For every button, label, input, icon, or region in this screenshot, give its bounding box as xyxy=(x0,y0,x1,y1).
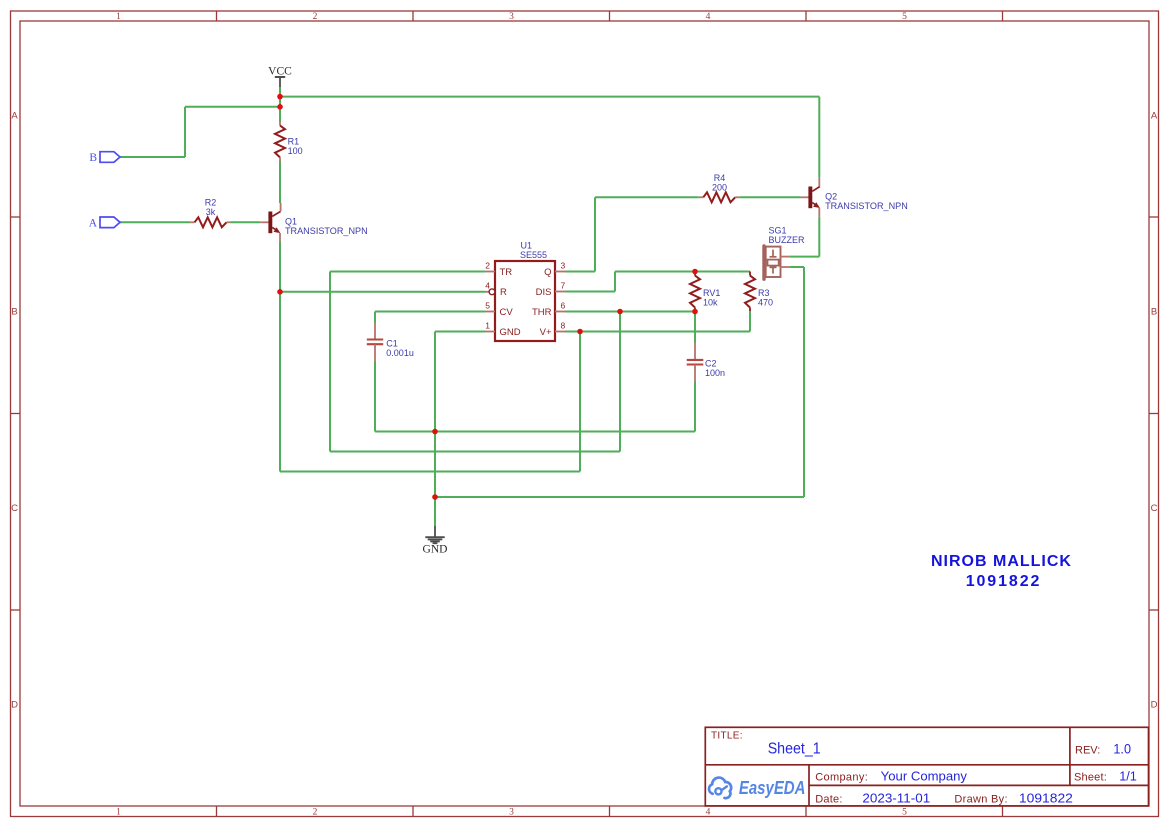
svg-text:5: 5 xyxy=(485,301,490,311)
svg-text:2023-11-01: 2023-11-01 xyxy=(862,790,930,805)
node junction 3 xyxy=(277,289,283,295)
svg-text:V+: V+ xyxy=(540,327,552,338)
svg-text:EasyEDA: EasyEDA xyxy=(739,778,806,798)
svg-text:200: 200 xyxy=(712,183,727,193)
svg-text:100n: 100n xyxy=(705,368,725,378)
svg-text:Sheet:: Sheet: xyxy=(1074,772,1107,784)
wire DIS pin horizontal xyxy=(565,291,615,293)
svg-text:1091822: 1091822 xyxy=(1019,790,1073,805)
wire CV pin horizontal xyxy=(375,311,485,313)
svg-text:5: 5 xyxy=(902,12,907,22)
resistor RV1 xyxy=(690,272,720,312)
svg-text:C: C xyxy=(1151,503,1158,514)
wire R1 bottom to Q1 collector xyxy=(279,161,281,203)
svg-text:10k: 10k xyxy=(703,298,718,308)
svg-text:TR: TR xyxy=(500,267,513,278)
svg-text:A: A xyxy=(1151,111,1158,122)
ruler row letters left xyxy=(11,111,18,711)
svg-text:C1: C1 xyxy=(386,338,398,348)
svg-text:TRANSISTOR_NPN: TRANSISTOR_NPN xyxy=(285,226,368,236)
svg-text:B: B xyxy=(11,307,17,318)
wire Q1 emitter vertical xyxy=(279,241,281,471)
wire port B vertical xyxy=(184,107,186,157)
svg-text:4: 4 xyxy=(485,281,490,291)
wire R3 bottom vertical xyxy=(749,311,751,332)
ruler row letters right xyxy=(1151,111,1158,711)
op-amp U1 SE555 body xyxy=(495,240,555,341)
wire buzzer top pin xyxy=(789,256,819,258)
wire Q2 collector vertical xyxy=(818,97,820,178)
svg-text:Drawn By:: Drawn By: xyxy=(954,793,1007,805)
svg-text:BUZZER: BUZZER xyxy=(769,235,806,245)
svg-text:GND: GND xyxy=(500,327,521,338)
wire TR pin horizontal xyxy=(330,271,485,273)
wire C2 top vertical xyxy=(694,312,696,343)
svg-text:3: 3 xyxy=(509,808,514,818)
ruler column ticks bottom xyxy=(217,806,1003,817)
svg-text:2: 2 xyxy=(485,261,490,271)
pin 1 GND xyxy=(485,321,521,338)
svg-text:A: A xyxy=(11,111,18,122)
node junction 8 xyxy=(692,269,698,275)
svg-text:470: 470 xyxy=(758,298,773,308)
pin 7 DIS xyxy=(536,281,566,299)
svg-text:Your Company: Your Company xyxy=(881,769,968,784)
svg-text:R: R xyxy=(500,287,507,298)
capacitor C2 xyxy=(687,343,725,382)
wire Q1 emitter to V+ horizontal xyxy=(280,471,580,473)
svg-text:2: 2 xyxy=(313,12,318,22)
node junction 7 xyxy=(617,309,623,315)
svg-text:B: B xyxy=(1151,307,1157,318)
port A xyxy=(89,217,120,229)
svg-text:VCC: VCC xyxy=(268,66,292,78)
wire buzzer bottom pin xyxy=(789,266,804,268)
svg-text:REV:: REV: xyxy=(1075,745,1100,757)
wire TR to THR horizontal xyxy=(330,451,620,453)
svg-text:R2: R2 xyxy=(205,198,217,208)
resistor R2 xyxy=(190,198,230,228)
svg-text:RV1: RV1 xyxy=(703,288,720,298)
svg-text:D: D xyxy=(11,700,18,711)
wire Q to R4 horizontal xyxy=(595,196,699,198)
buzzer SG1 xyxy=(762,225,805,281)
svg-text:Q1: Q1 xyxy=(285,216,297,226)
svg-text:Q: Q xyxy=(544,267,551,278)
svg-text:U1: U1 xyxy=(521,240,533,250)
ruler row ticks left xyxy=(11,217,21,610)
VCC power symbol xyxy=(268,66,292,88)
svg-text:TRANSISTOR_NPN: TRANSISTOR_NPN xyxy=(825,201,908,211)
GND ground symbol xyxy=(423,526,448,556)
svg-text:CV: CV xyxy=(500,307,514,318)
svg-text:100: 100 xyxy=(288,146,303,156)
transistor Q2 xyxy=(800,177,907,217)
wire THR pin horizontal xyxy=(565,311,695,313)
port B xyxy=(89,152,120,164)
wire C1 bottom vertical xyxy=(374,362,376,432)
svg-text:SE555: SE555 xyxy=(520,250,547,260)
pin 5 CV xyxy=(485,301,513,318)
wire R4 to Q2 base xyxy=(740,196,801,198)
svg-text:1091822: 1091822 xyxy=(966,573,1042,590)
wire DIS branch vertical xyxy=(614,272,616,292)
svg-text:TITLE:: TITLE: xyxy=(711,730,743,741)
svg-text:C2: C2 xyxy=(705,358,717,368)
svg-text:THR: THR xyxy=(532,307,552,318)
svg-text:2: 2 xyxy=(313,808,318,818)
pin 3 Q xyxy=(544,261,565,278)
svg-text:Q2: Q2 xyxy=(825,191,837,201)
svg-text:1/1: 1/1 xyxy=(1119,769,1137,784)
wire VCC vertical xyxy=(279,87,281,122)
pin 8 V+ xyxy=(540,321,566,338)
pin 4 R (inverting bubble) xyxy=(485,281,507,299)
wire ground rail horizontal xyxy=(375,431,695,433)
node junction 1 xyxy=(277,94,283,100)
wire V+ pin horizontal xyxy=(565,331,750,333)
wire C2 bottom vertical xyxy=(694,382,696,432)
svg-text:1: 1 xyxy=(116,808,121,818)
svg-text:1: 1 xyxy=(485,321,490,331)
svg-text:3k: 3k xyxy=(206,207,216,217)
svg-text:4: 4 xyxy=(706,808,711,818)
svg-text:D: D xyxy=(1151,700,1158,711)
svg-text:3: 3 xyxy=(561,261,566,271)
svg-text:7: 7 xyxy=(561,281,566,291)
svg-text:Company:: Company: xyxy=(815,772,868,784)
ruler column numbers bottom xyxy=(116,808,907,818)
svg-text:DIS: DIS xyxy=(536,287,552,298)
node junction 2 xyxy=(277,104,283,110)
wire V+ branch vertical xyxy=(579,332,581,472)
wire Q pin horizontal xyxy=(565,271,595,273)
capacitor C1 xyxy=(367,323,414,362)
ruler column ticks top xyxy=(217,11,1003,21)
svg-text:A: A xyxy=(89,217,98,229)
svg-text:1.0: 1.0 xyxy=(1113,741,1131,757)
resistor R4 xyxy=(699,173,740,202)
svg-text:Sheet_1: Sheet_1 xyxy=(768,740,821,757)
svg-text:R3: R3 xyxy=(758,288,770,298)
svg-text:C: C xyxy=(11,503,18,514)
EasyEDA logo cloud xyxy=(709,778,731,799)
wire THR branch vertical xyxy=(619,312,621,452)
node junction 6 xyxy=(577,329,583,335)
pin 6 THR xyxy=(532,301,566,318)
pin 2 TR xyxy=(485,261,512,278)
wire R2 to Q1 base xyxy=(230,221,260,223)
wire DIS to RV1 R3 horizontal xyxy=(615,271,750,273)
wire GND to buzzer horizontal xyxy=(435,496,804,498)
wire GND vertical xyxy=(434,332,436,527)
resistor R3 xyxy=(745,272,773,312)
svg-text:8: 8 xyxy=(561,321,566,331)
resistor R1 xyxy=(275,122,303,161)
node junction 5 xyxy=(432,494,438,500)
transistor Q1 xyxy=(260,203,367,242)
svg-text:4: 4 xyxy=(706,12,711,22)
node junction 9 xyxy=(692,309,698,315)
svg-text:GND: GND xyxy=(423,544,448,556)
wire port A to R2 xyxy=(120,221,190,223)
wire port B to VCC node xyxy=(185,106,280,108)
svg-text:5: 5 xyxy=(902,808,907,818)
wire R pin to Q1 node xyxy=(280,291,485,293)
ruler row ticks right xyxy=(1149,217,1159,610)
svg-text:0.001u: 0.001u xyxy=(386,348,414,358)
svg-text:R4: R4 xyxy=(714,173,726,183)
wire buzzer bottom vertical xyxy=(803,267,805,497)
wire VCC to Q2 collector horizontal xyxy=(280,96,819,98)
svg-text:R1: R1 xyxy=(288,137,300,147)
wire CV to C1 xyxy=(374,312,376,323)
svg-text:1: 1 xyxy=(116,12,121,22)
wire port B horizontal xyxy=(120,156,185,158)
wire Q2 emitter vertical xyxy=(818,217,820,257)
svg-text:Date:: Date: xyxy=(815,793,843,805)
wire Q branch vertical xyxy=(594,197,596,271)
svg-text:B: B xyxy=(89,152,97,164)
node junction 4 xyxy=(432,429,438,435)
wire GND pin horizontal xyxy=(435,331,485,333)
wire TR branch vertical xyxy=(329,272,331,452)
svg-text:6: 6 xyxy=(561,301,566,311)
title block frame xyxy=(705,727,1148,806)
ruler column numbers top xyxy=(116,12,907,22)
svg-text:NIROB MALLICK: NIROB MALLICK xyxy=(931,553,1072,570)
svg-text:SG1: SG1 xyxy=(769,225,787,235)
svg-text:3: 3 xyxy=(509,12,514,22)
